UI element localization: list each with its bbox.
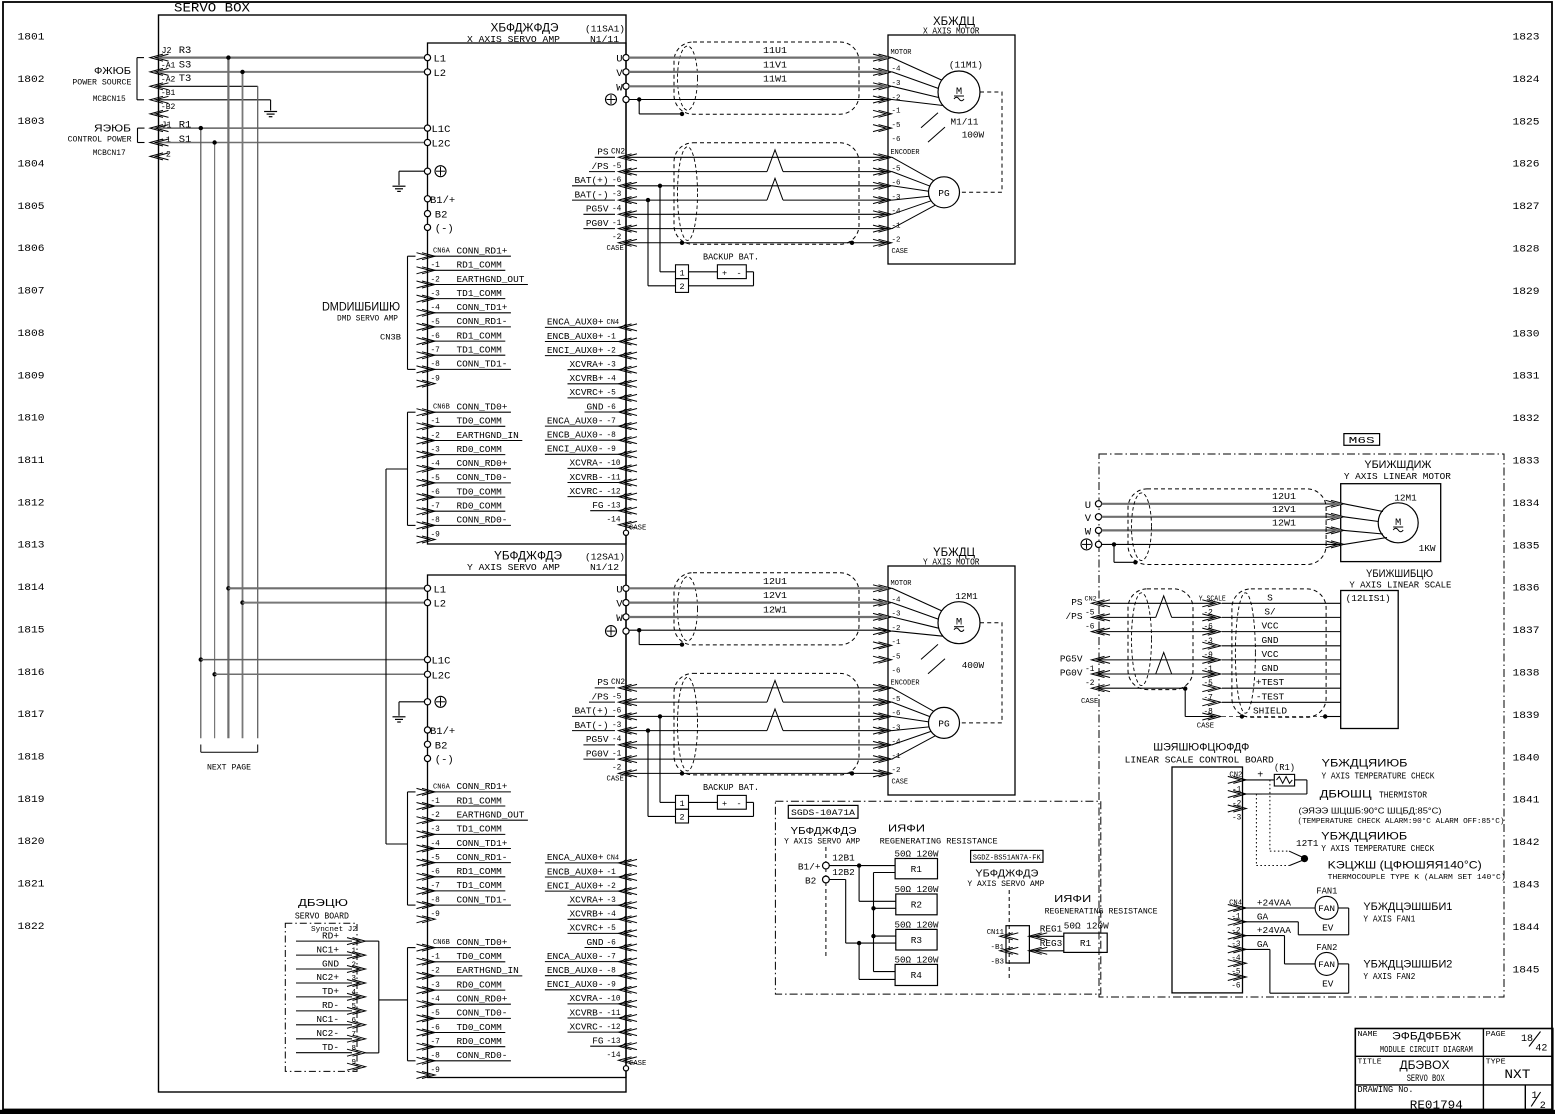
bracket control power — [137, 128, 139, 142]
svg-text:1809: 1809 — [18, 370, 45, 382]
svg-text:1844: 1844 — [1513, 922, 1540, 934]
svg-text:EARTHGND_OUT: EARTHGND_OUT — [457, 810, 525, 821]
pin L1C — [424, 657, 430, 663]
svg-text:-7: -7 — [431, 883, 441, 891]
svg-text:CONN_TD1-: CONN_TD1- — [457, 359, 508, 370]
svg-text:+24VAA: +24VAA — [1257, 898, 1291, 909]
svg-text:XCVRA+: XCVRA+ — [570, 895, 604, 906]
svg-text:TD1_COMM: TD1_COMM — [457, 345, 503, 356]
svg-text:-6: -6 — [1231, 983, 1241, 991]
svg-text:6: 6 — [352, 1017, 357, 1025]
svg-text:L1C: L1C — [432, 124, 451, 136]
svg-text:CONN_RD0-: CONN_RD0- — [457, 1050, 508, 1061]
svg-text:PG5V: PG5V — [586, 204, 609, 215]
svg-text:MODULE CIRCUIT DIAGRAM: MODULE CIRCUIT DIAGRAM — [1380, 1045, 1473, 1055]
svg-text:1841: 1841 — [1513, 795, 1540, 807]
op-amp X axis servo amp 11SA1 box — [428, 43, 627, 544]
pin B2 regen — [823, 876, 830, 883]
svg-text:L1: L1 — [434, 584, 447, 596]
svg-text:TD0_COMM: TD0_COMM — [457, 951, 503, 962]
servo board dash-dot box — [285, 923, 357, 1071]
svg-text:12B2: 12B2 — [832, 867, 855, 878]
svg-text:1814: 1814 — [18, 582, 45, 594]
pin PE right — [623, 628, 629, 634]
svg-text:ИЯФИ: ИЯФИ — [888, 823, 925, 835]
svg-text:1842: 1842 — [1513, 837, 1540, 849]
pin L2C — [424, 139, 430, 145]
svg-text:-1: -1 — [1085, 666, 1095, 674]
bracket power source — [136, 58, 138, 100]
svg-text:PG5V: PG5V — [1060, 653, 1083, 664]
svg-text:PG0V: PG0V — [1060, 668, 1083, 679]
svg-text:B1/+: B1/+ — [430, 195, 455, 207]
svg-text:/PS: /PS — [592, 691, 609, 702]
pin L1 — [424, 585, 430, 591]
svg-text:-8: -8 — [431, 897, 441, 905]
pin CASE CN4 — [623, 1066, 628, 1071]
svg-text:Y AXIS TEMPERATURE CHECK: Y AXIS TEMPERATURE CHECK — [1321, 844, 1435, 854]
svg-text:NC2-: NC2- — [316, 1028, 339, 1039]
svg-text:1806: 1806 — [18, 243, 45, 255]
pin U — [623, 585, 629, 591]
svg-text:CONN_RD0-: CONN_RD0- — [457, 515, 508, 526]
pin U — [623, 55, 629, 61]
svg-text:PG0V: PG0V — [586, 748, 609, 759]
svg-text:-12: -12 — [607, 1024, 621, 1032]
svg-text:-4: -4 — [607, 911, 617, 919]
svg-text:-6: -6 — [1204, 624, 1214, 632]
svg-text:N1/11: N1/11 — [590, 34, 619, 45]
svg-text:TD0_COMM: TD0_COMM — [457, 486, 503, 497]
svg-text:EV: EV — [1322, 979, 1334, 990]
svg-text:(-): (-) — [435, 755, 454, 767]
svg-text:ENCB_AUX0+: ENCB_AUX0+ — [547, 866, 604, 877]
svg-text:-5: -5 — [431, 1010, 441, 1018]
svg-text:Y AXIS LINEAR SCALE: Y AXIS LINEAR SCALE — [1349, 580, 1451, 591]
wire R1 to X L1C — [159, 127, 425, 129]
svg-text:ENCODER: ENCODER — [891, 149, 920, 157]
pin L2 — [424, 69, 430, 75]
svg-text:CONN_RD1+: CONN_RD1+ — [457, 246, 508, 257]
svg-text:/PS: /PS — [1066, 611, 1083, 622]
svg-text:1828: 1828 — [1513, 244, 1540, 256]
svg-text:1833: 1833 — [1513, 456, 1540, 468]
wire Y L2C tap — [212, 672, 216, 676]
svg-text:1: 1 — [679, 799, 684, 809]
svg-text:B1/+: B1/+ — [798, 862, 821, 873]
svg-text:2: 2 — [352, 961, 357, 969]
svg-text:ENCB_AUX0-: ENCB_AUX0- — [547, 965, 604, 976]
wire DMD link X-CN6B to Y-CN6A — [386, 468, 408, 470]
svg-text:CN3B: CN3B — [380, 333, 401, 343]
svg-text:-4: -4 — [431, 461, 441, 469]
svg-text:12W1: 12W1 — [1272, 517, 1296, 528]
svg-text:(ЭЯЭЭ ШЦШБ:90°C ШЦБД:85°C): (ЭЯЭЭ ШЦШБ:90°C ШЦБД:85°C) — [1299, 807, 1442, 816]
connector J1 MCBCN17 control power — [150, 125, 163, 132]
svg-text:FG: FG — [592, 500, 604, 511]
svg-text:CN6A: CN6A — [433, 783, 451, 791]
svg-text:XCVRB+: XCVRB+ — [570, 373, 604, 384]
fan2 wires — [1243, 935, 1285, 937]
case drain wire — [626, 242, 888, 244]
svg-text:S/: S/ — [1264, 606, 1276, 617]
svg-text:GND: GND — [587, 937, 604, 948]
svg-text:-8: -8 — [607, 968, 617, 976]
scale left cable shield — [1128, 589, 1193, 690]
svg-text:-9: -9 — [431, 911, 441, 919]
pin V — [623, 69, 629, 75]
svg-text:L2: L2 — [434, 68, 447, 80]
svg-text:9: 9 — [352, 1059, 357, 1067]
svg-text:-4: -4 — [431, 840, 441, 848]
terminal box 1 — [676, 795, 689, 809]
bracket CN6A — [407, 792, 409, 905]
svg-text:-5: -5 — [892, 122, 902, 130]
power cable shield — [674, 573, 859, 645]
svg-text:-5: -5 — [1231, 969, 1241, 977]
svg-text:2: 2 — [1540, 1101, 1546, 1112]
svg-text:EV: EV — [1322, 923, 1334, 934]
svg-text:-5: -5 — [431, 475, 441, 483]
svg-text:-1: -1 — [431, 418, 441, 426]
SERVO BOX enclosure — [159, 15, 627, 1092]
linear motor wires — [1102, 503, 1341, 505]
svg-text:-4: -4 — [431, 305, 441, 313]
svg-text:(11M1): (11M1) — [949, 60, 983, 71]
svg-text:-4: -4 — [612, 736, 622, 744]
svg-text:SERVO BOX: SERVO BOX — [1407, 1073, 1445, 1085]
svg-text:S3: S3 — [179, 59, 192, 71]
svg-text:+24VAA: +24VAA — [1257, 925, 1291, 936]
svg-text:ЯЭЮБ: ЯЭЮБ — [94, 122, 131, 134]
shield row dashed — [1222, 716, 1325, 718]
svg-text:ДБЭBOX: ДБЭBOX — [1400, 1058, 1450, 1072]
dotted link M to PG — [960, 623, 1003, 723]
svg-text:RE01794: RE01794 — [1410, 1098, 1463, 1112]
svg-text:1834: 1834 — [1513, 498, 1540, 510]
wire Y L1C tap — [199, 657, 203, 661]
linear motor cable shield — [1128, 489, 1326, 565]
motor wire fan-in — [892, 58, 942, 80]
svg-text:Y AXIS MOTOR: Y AXIS MOTOR — [923, 557, 980, 568]
motor Y axis motor 12M1 box — [888, 566, 1015, 795]
svg-text:RD-: RD- — [322, 1000, 339, 1011]
pin L1C — [424, 125, 430, 131]
svg-text:1825: 1825 — [1513, 116, 1540, 128]
PE shield tap linear — [1112, 542, 1116, 546]
svg-text:-3: -3 — [431, 446, 441, 454]
svg-text:PAGE: PAGE — [1486, 1031, 1507, 1039]
svg-text:NC1+: NC1+ — [316, 944, 339, 955]
svg-text:-B3: -B3 — [990, 959, 1004, 967]
svg-text:CASE: CASE — [629, 1060, 646, 1068]
svg-text:1803: 1803 — [18, 116, 45, 128]
svg-text:11W1: 11W1 — [763, 74, 787, 85]
bracket J2 — [378, 941, 380, 1053]
twisted pair marks — [767, 150, 783, 172]
svg-text:12U1: 12U1 — [1272, 491, 1296, 502]
svg-text:CONN_TD1+: CONN_TD1+ — [457, 302, 508, 313]
svg-text:RD0_COMM: RD0_COMM — [457, 979, 503, 990]
svg-text:M1/11: M1/11 — [951, 117, 979, 128]
svg-text:-2: -2 — [607, 347, 617, 355]
bracket CN6B — [407, 948, 409, 1061]
svg-text:B2: B2 — [435, 740, 448, 752]
svg-text:RD1_COMM: RD1_COMM — [457, 330, 503, 341]
svg-text:-4: -4 — [607, 376, 617, 384]
svg-text:CN6B: CN6B — [433, 404, 450, 412]
svg-text:CASE: CASE — [629, 524, 646, 532]
bracket CN6B — [407, 412, 409, 525]
svg-text:42: 42 — [1535, 1044, 1547, 1055]
svg-text:CN6B: CN6B — [433, 939, 450, 947]
svg-text:MOTOR: MOTOR — [891, 580, 912, 588]
svg-text:ФЖЮБ: ФЖЮБ — [94, 65, 131, 77]
motor circle M — [938, 602, 980, 644]
svg-text:-5: -5 — [607, 925, 617, 933]
terminal box 1 — [676, 265, 689, 279]
svg-text:CN4: CN4 — [607, 319, 620, 327]
rail R1 vertical — [200, 128, 202, 738]
svg-text:-TEST: -TEST — [1256, 691, 1285, 702]
svg-text:1832: 1832 — [1513, 413, 1540, 425]
svg-text:-B2: -B2 — [161, 102, 176, 112]
svg-text:-7: -7 — [431, 503, 441, 511]
svg-text:CONN_TD0+: CONN_TD0+ — [457, 402, 508, 413]
svg-text:-5: -5 — [607, 390, 617, 398]
motor X axis motor 11M1 box — [888, 35, 1015, 264]
svg-text:1819: 1819 — [18, 794, 45, 806]
encoder PG circle — [929, 177, 960, 208]
svg-text:PS: PS — [1071, 597, 1083, 608]
svg-text:-6: -6 — [607, 404, 617, 412]
svg-text:-6: -6 — [1085, 624, 1095, 632]
svg-text:(12LIS1): (12LIS1) — [1346, 593, 1391, 604]
svg-text:ШЭЯШЮФЦЮФДФ: ШЭЯШЮФЦЮФДФ — [1153, 742, 1249, 754]
svg-text:CONN_RD1-: CONN_RD1- — [457, 852, 508, 863]
svg-text:-2: -2 — [607, 883, 617, 891]
svg-text:BAT(+): BAT(+) — [575, 175, 609, 186]
svg-text:CN6A: CN6A — [433, 248, 451, 256]
svg-text:1820: 1820 — [18, 836, 45, 848]
motor wire fan-in — [892, 588, 942, 610]
svg-text:W: W — [616, 613, 623, 625]
linear scale 12LIS1 box — [1341, 591, 1399, 729]
svg-text:U: U — [616, 54, 622, 66]
motor circle M — [938, 71, 980, 113]
svg-text:Y AXIS LINEAR MOTOR: Y AXIS LINEAR MOTOR — [1344, 471, 1451, 482]
svg-text:R3: R3 — [911, 935, 923, 946]
wires U V W — [629, 587, 888, 589]
svg-text:-2: -2 — [892, 94, 901, 102]
svg-text:THERMOCOUPLE TYPE K (ALARM SET: THERMOCOUPLE TYPE K (ALARM SET 140°C) — [1328, 873, 1506, 882]
svg-text:CONN_TD0+: CONN_TD0+ — [457, 937, 508, 948]
svg-text:1813: 1813 — [18, 540, 45, 552]
pin PE right — [623, 96, 629, 102]
svg-text:X AXIS SERVO AMP: X AXIS SERVO AMP — [467, 34, 560, 45]
encoder cable shield — [674, 673, 859, 775]
wire S3 to X L2 — [159, 71, 425, 73]
svg-text:V: V — [1085, 513, 1092, 525]
svg-text:50Ω 120W: 50Ω 120W — [1064, 921, 1109, 932]
svg-text:11V1: 11V1 — [763, 59, 787, 70]
svg-text:CASE: CASE — [1081, 698, 1098, 706]
svg-text:BAT(-): BAT(-) — [575, 189, 609, 200]
wire PE — [629, 629, 888, 631]
svg-text:-11: -11 — [607, 1010, 621, 1018]
svg-text:CONN_RD0+: CONN_RD0+ — [457, 458, 508, 469]
motor stub lines — [921, 644, 938, 659]
svg-text:-3: -3 — [1204, 638, 1214, 646]
encoder wires — [626, 687, 888, 689]
svg-text:2: 2 — [679, 282, 684, 292]
thermocouple junction 12T1 — [1289, 851, 1302, 857]
ground amp — [393, 185, 406, 187]
battery symbol — [717, 265, 746, 279]
svg-text:SHIELD: SHIELD — [1253, 706, 1287, 717]
svg-text:TYPE: TYPE — [1486, 1059, 1507, 1067]
case drain elbow — [1099, 687, 1185, 689]
svg-text:R1: R1 — [1080, 938, 1092, 949]
svg-text:EARTHGND_IN: EARTHGND_IN — [457, 430, 519, 441]
svg-text:12B1: 12B1 — [832, 853, 855, 864]
svg-text:-9: -9 — [431, 531, 441, 539]
svg-text:-2: -2 — [612, 765, 622, 773]
svg-text:-2: -2 — [892, 767, 901, 775]
svg-text:-6: -6 — [431, 333, 441, 341]
svg-text:U: U — [616, 584, 622, 596]
svg-text:CASE: CASE — [892, 778, 909, 786]
PE shield tap — [637, 97, 641, 101]
svg-text:BAT(-): BAT(-) — [575, 720, 609, 731]
svg-text:YБЖДЦЭШШБИ1: YБЖДЦЭШШБИ1 — [1363, 901, 1452, 913]
svg-text:-2: -2 — [431, 812, 441, 820]
svg-text:T3: T3 — [179, 73, 192, 85]
svg-text:X AXIS MOTOR: X AXIS MOTOR — [923, 26, 980, 37]
svg-text:XCVRC-: XCVRC- — [570, 486, 604, 497]
svg-text:BACKUP BAT.: BACKUP BAT. — [703, 782, 759, 793]
svg-text:-2: -2 — [1232, 801, 1242, 809]
svg-text:1808: 1808 — [18, 328, 45, 340]
svg-text:R2: R2 — [911, 900, 922, 911]
svg-text:-2: -2 — [892, 237, 901, 245]
terminal box 2 — [676, 809, 689, 823]
svg-text:VCC: VCC — [1262, 621, 1279, 632]
svg-text:GND: GND — [322, 958, 339, 969]
pin (-) — [424, 224, 430, 230]
svg-text:12M1: 12M1 — [1394, 493, 1417, 504]
encoder wire fan-in — [892, 688, 934, 712]
PE shield tap — [637, 628, 641, 632]
svg-text:-3: -3 — [892, 194, 902, 202]
svg-text:M6S: M6S — [1349, 435, 1375, 446]
svg-text:-2: -2 — [612, 234, 622, 242]
svg-text:ENCI_AUX0-: ENCI_AUX0- — [547, 979, 604, 990]
svg-text:B2: B2 — [435, 210, 448, 222]
svg-text:4: 4 — [352, 989, 357, 997]
svg-text:MCBCN15: MCBCN15 — [93, 94, 126, 104]
svg-text:RD0_COMM: RD0_COMM — [457, 1036, 503, 1047]
svg-text:EARTHGND_IN: EARTHGND_IN — [457, 965, 519, 976]
svg-text:-B1: -B1 — [990, 944, 1004, 952]
svg-text:1816: 1816 — [18, 667, 45, 679]
svg-text:REG1: REG1 — [1040, 924, 1063, 935]
svg-text:1839: 1839 — [1513, 710, 1540, 722]
connector CN11 — [1006, 926, 1029, 963]
svg-text:1826: 1826 — [1513, 159, 1540, 171]
pin L2 — [424, 600, 430, 606]
svg-text:XCVRB+: XCVRB+ — [570, 909, 604, 920]
svg-text:-2: -2 — [431, 968, 441, 976]
connector Syncnet J2 rows — [353, 938, 366, 945]
svg-text:-13: -13 — [607, 503, 621, 511]
svg-text:YБЖДЦЯИЮБ: YБЖДЦЯИЮБ — [1321, 831, 1407, 843]
encoder cable shield — [674, 143, 859, 245]
pin B1/+ — [424, 727, 430, 733]
svg-text:CASE: CASE — [607, 775, 624, 783]
svg-text:ENCI_AUX0+: ENCI_AUX0+ — [547, 345, 604, 356]
wire Y L2 tap — [240, 600, 244, 604]
svg-text:-1: -1 — [1231, 914, 1241, 922]
svg-text:12M1: 12M1 — [955, 591, 978, 602]
label SGDS-10A71A — [788, 805, 858, 818]
twisted pair marks — [767, 680, 783, 702]
wire J2 to Y CN6B — [379, 999, 408, 1001]
svg-text:R1: R1 — [179, 120, 192, 132]
svg-text:ДБЭЦЮ: ДБЭЦЮ — [298, 897, 348, 909]
svg-text:+TEST: +TEST — [1256, 677, 1285, 688]
svg-text:ENCA_AUX0+: ENCA_AUX0+ — [547, 852, 604, 863]
svg-text:-6: -6 — [892, 136, 902, 144]
svg-text:TD1_COMM: TD1_COMM — [457, 880, 503, 891]
svg-text:ENCI_AUX0-: ENCI_AUX0- — [547, 444, 604, 455]
svg-text:ENCA_AUX0-: ENCA_AUX0- — [547, 415, 604, 426]
svg-text:CONTROL POWER: CONTROL POWER — [68, 136, 132, 145]
svg-text:NC2+: NC2+ — [316, 972, 339, 983]
svg-text:VCC: VCC — [1262, 649, 1279, 660]
svg-text:-9: -9 — [431, 1067, 441, 1075]
svg-text:-A2: -A2 — [161, 74, 176, 84]
svg-text:L2C: L2C — [432, 139, 451, 151]
svg-text:Y AXIS SERVO AMP: Y AXIS SERVO AMP — [784, 837, 860, 847]
svg-text:-1: -1 — [607, 869, 617, 877]
svg-text:Y AXIS TEMPERATURE CHECK: Y AXIS TEMPERATURE CHECK — [1322, 772, 1436, 782]
svg-text:XCVRA-: XCVRA- — [570, 993, 604, 1004]
svg-text:FAN: FAN — [1318, 960, 1335, 970]
svg-text:12U1: 12U1 — [763, 576, 787, 587]
svg-text:-7: -7 — [607, 953, 617, 961]
svg-text:1817: 1817 — [18, 709, 45, 721]
svg-text:ENCI_AUX0+: ENCI_AUX0+ — [547, 880, 604, 891]
svg-text:-2: -2 — [431, 432, 441, 440]
svg-text:-6: -6 — [892, 668, 902, 676]
svg-text:-5: -5 — [431, 319, 441, 327]
svg-text:1805: 1805 — [18, 201, 45, 213]
svg-text:FAN2: FAN2 — [1316, 942, 1337, 953]
svg-text:1801: 1801 — [18, 32, 45, 44]
svg-text:XБФДЖФДЭ: XБФДЖФДЭ — [491, 21, 559, 35]
label SGDZ-BS51AN7A-FK — [971, 850, 1043, 862]
svg-text:YБЖДЦЯИЮБ: YБЖДЦЯИЮБ — [1322, 758, 1408, 770]
svg-text:W: W — [616, 82, 623, 94]
wire S1 to X L2C — [159, 142, 425, 144]
svg-text:1822: 1822 — [18, 921, 45, 933]
svg-text:TD1_COMM: TD1_COMM — [457, 288, 503, 299]
svg-text:-12: -12 — [607, 488, 621, 496]
fan FAN2 — [1315, 952, 1338, 975]
connector CN2 — [619, 154, 632, 161]
svg-text:CASE: CASE — [1197, 723, 1214, 731]
